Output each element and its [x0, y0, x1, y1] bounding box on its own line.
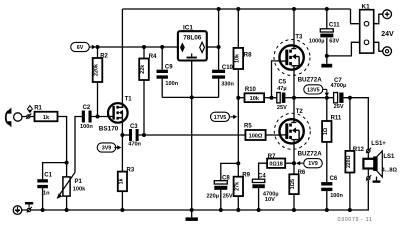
wire C4 bottom stem	[258, 188, 260, 210]
resistor R12	[345, 147, 364, 173]
capacitor C6	[321, 176, 343, 199]
speaker bottom pin	[366, 175, 371, 181]
wire R11 to C6	[326, 142, 328, 182]
svg-text:R12: R12	[353, 147, 365, 153]
svg-text:78L06: 78L06	[183, 35, 202, 42]
svg-text:25V: 25V	[334, 104, 344, 110]
node output/R11	[325, 96, 329, 100]
svg-text:C8: C8	[222, 176, 230, 182]
svg-text:1V9: 1V9	[308, 161, 318, 167]
svg-text:4700µ: 4700µ	[331, 83, 347, 89]
svg-text:220k: 220k	[94, 64, 100, 76]
ground pin	[27, 207, 32, 213]
svg-text:R3: R3	[127, 168, 135, 174]
wire C5 to T3 source	[285, 97, 294, 99]
svg-text:C3: C3	[130, 124, 138, 130]
svg-text:R9: R9	[242, 172, 250, 178]
ground (main)	[186, 210, 198, 221]
svg-text:T2: T2	[296, 109, 304, 115]
wire C1 bottom stem	[42, 188, 44, 210]
wire R6 bottom stem	[293, 194, 295, 210]
svg-text:47µ: 47µ	[277, 86, 286, 92]
wire C11 top stem	[326, 9, 328, 29]
wire K1 pin2 feed	[327, 42, 360, 56]
svg-text:T3: T3	[295, 35, 303, 41]
svg-text:220µ: 220µ	[206, 193, 219, 199]
svg-text:13V5: 13V5	[307, 87, 320, 93]
svg-text:C2: C2	[83, 105, 91, 111]
wire pin to R1	[30, 116, 34, 118]
wire R3 bottom stem	[121, 191, 123, 210]
node 24V/IC1 input	[217, 7, 221, 11]
wire IC1 input column	[218, 9, 220, 47]
node 6V/R2	[96, 45, 100, 49]
svg-text:22k: 22k	[140, 65, 146, 74]
wire R11 top stem	[326, 98, 328, 121]
svg-text:100n: 100n	[80, 124, 93, 130]
wire C9 top stem	[161, 47, 163, 70]
resistor R11	[322, 115, 342, 142]
svg-text:R6: R6	[298, 170, 306, 176]
svg-text:R4: R4	[149, 54, 157, 60]
op-amp U1 / regulator IC1 78L06	[178, 24, 207, 60]
wire decoupling ground link	[162, 96, 218, 98]
wire R7 to C4	[259, 163, 268, 179]
capacitor C4	[252, 174, 278, 203]
input socket circle	[14, 113, 22, 121]
svg-text:0Ω18: 0Ω18	[269, 162, 282, 168]
svg-text:C11: C11	[329, 23, 340, 29]
wire K1 to 0 terminal	[374, 42, 383, 51]
wire C8 bottom stem	[220, 190, 222, 210]
svg-text:25V: 25V	[223, 193, 233, 199]
node T3 gate/C5	[270, 96, 274, 100]
svg-text:030079 - 11: 030079 - 11	[338, 217, 373, 223]
node C7/R12	[348, 96, 352, 100]
svg-text:330n: 330n	[221, 81, 234, 87]
svg-text:4...8Ω: 4...8Ω	[382, 168, 398, 174]
svg-text:1000µ: 1000µ	[309, 39, 325, 45]
wire R4 top stem	[143, 47, 145, 59]
node label 13V5	[304, 85, 329, 97]
svg-text:C4: C4	[258, 174, 266, 180]
wire C8 branch	[221, 163, 239, 180]
svg-text:C1: C1	[44, 172, 52, 178]
wire speaker top stub	[367, 153, 369, 159]
wire R10 to C5	[264, 97, 277, 99]
resistor R8	[234, 48, 253, 69]
wire R12 top stem	[349, 98, 351, 151]
wire speaker bottom stub	[367, 169, 369, 177]
capacitor C3	[128, 124, 141, 147]
svg-text:220Ω: 220Ω	[346, 156, 352, 168]
wire R6 top stem	[293, 163, 295, 174]
resistor R10	[245, 87, 265, 102]
svg-text:100k: 100k	[73, 187, 86, 193]
label 24V	[381, 31, 394, 38]
resistor R1	[34, 106, 57, 122]
wire R8 top stem	[237, 9, 239, 48]
wire K1 pin1 feed	[351, 9, 360, 24]
svg-text:BUZ72A: BUZ72A	[298, 150, 323, 157]
svg-text:R10: R10	[245, 87, 257, 93]
node 6V/C9	[160, 45, 164, 49]
wire R7 right stub	[285, 162, 294, 164]
svg-text:R7: R7	[268, 154, 276, 160]
ground (speaker)	[373, 177, 381, 183]
node T2 source/R6/R7	[292, 161, 296, 165]
node ground/IC1	[190, 208, 194, 212]
wire T2 source stem	[293, 143, 295, 163]
input pin	[26, 113, 31, 119]
node ground link/IC1 gnd	[190, 95, 194, 99]
node label 6V	[71, 42, 96, 51]
svg-text:LS1+: LS1+	[371, 141, 386, 147]
wire R9 bottom stem	[237, 196, 239, 210]
resistor R2	[93, 54, 109, 83]
svg-text:27k: 27k	[235, 182, 241, 191]
node ground/P1	[65, 208, 69, 212]
node R9/ground rail	[236, 208, 240, 212]
wire C1 branch	[43, 163, 67, 180]
wire R5 to T2 gate	[266, 134, 281, 136]
wire C10 top stem	[218, 47, 220, 70]
node divider/R10	[236, 96, 240, 100]
wire C3 to R5 line	[139, 134, 246, 136]
capacitor C10	[212, 65, 234, 88]
node label 3V9	[97, 143, 121, 152]
svg-text:C6: C6	[330, 176, 338, 182]
svg-text:1k: 1k	[43, 115, 50, 121]
node T1 source/C3	[120, 133, 124, 137]
wire IC1 ground pin	[191, 61, 193, 211]
wire C3 left stub	[122, 134, 129, 136]
svg-text:R1: R1	[34, 106, 42, 112]
capacitor C1	[37, 172, 52, 196]
wire R1 to P1 top	[58, 117, 67, 177]
wire 6V line	[96, 46, 178, 48]
svg-text:R2: R2	[100, 54, 108, 60]
potentiometer P1	[57, 172, 87, 199]
transistor T2 (BUZ72A)	[274, 109, 322, 157]
wire C9 bottom stem	[161, 79, 163, 98]
svg-text:C9: C9	[165, 65, 173, 71]
svg-text:K1: K1	[362, 4, 371, 11]
wire R8-R9 column	[237, 69, 239, 177]
wire R10 left stub	[238, 97, 244, 99]
svg-text:LS1: LS1	[383, 154, 395, 160]
wire T3 source stem	[293, 69, 295, 97]
ground socket circle	[13, 206, 22, 215]
svg-text:C5: C5	[278, 80, 286, 86]
wire C6 bottom stem	[326, 191, 328, 210]
svg-text:24V: 24V	[381, 31, 394, 38]
node input/C1 branch	[65, 161, 69, 165]
speaker top pin	[366, 141, 386, 153]
svg-text:10k: 10k	[250, 96, 260, 102]
wire P1 wiper to C2	[75, 117, 82, 173]
wire K1 to + terminal	[374, 14, 383, 24]
input plug symbol	[5, 107, 11, 127]
svg-text:100n: 100n	[330, 193, 343, 199]
svg-text:63V: 63V	[329, 39, 339, 45]
capacitor C11	[309, 23, 340, 45]
capacitor C5	[277, 80, 287, 111]
resistor R9	[234, 172, 251, 196]
svg-text:R11: R11	[331, 115, 342, 121]
svg-text:1Ω5: 1Ω5	[290, 179, 296, 189]
svg-text:470n: 470n	[128, 141, 141, 147]
svg-text:3V9: 3V9	[102, 146, 112, 152]
node C3/R4	[142, 133, 146, 137]
wire T1 drain	[121, 9, 123, 104]
loudspeaker LS1	[363, 151, 397, 177]
node divider/C8	[236, 161, 240, 165]
capacitor C2	[80, 105, 93, 130]
node label 1V9	[296, 159, 322, 168]
svg-text:IC1: IC1	[183, 24, 193, 31]
svg-text:R8: R8	[244, 53, 252, 59]
svg-text:17V5: 17V5	[214, 115, 227, 121]
terminal 0V	[383, 47, 392, 56]
svg-text:25V: 25V	[277, 105, 287, 111]
wire T2 drain stem	[293, 98, 295, 120]
svg-text:100Ω: 100Ω	[249, 133, 263, 139]
capacitor C9	[157, 65, 179, 88]
wire T1 source column	[121, 122, 123, 171]
wire R2 top stem	[97, 47, 99, 58]
node R3/ground rail	[120, 208, 124, 212]
wire output rail	[294, 97, 334, 99]
node 24V/T3 drain	[292, 7, 296, 11]
svg-text:R5: R5	[244, 124, 252, 130]
svg-text:1n: 1n	[43, 191, 50, 197]
node label 17V5	[211, 112, 238, 121]
svg-text:1k: 1k	[119, 178, 125, 184]
ground (C11/K1)	[321, 56, 332, 68]
wire R12 bottom stem	[349, 173, 351, 211]
svg-text:10V: 10V	[265, 197, 275, 203]
ground (input, small)	[25, 202, 33, 208]
connector K1	[360, 4, 374, 53]
node 24V/C11	[325, 7, 329, 11]
svg-text:1Ω: 1Ω	[323, 127, 329, 135]
resistor R7	[267, 154, 285, 168]
wire R4 bottom stem	[143, 80, 145, 135]
wire 24V top rail	[122, 8, 350, 10]
svg-text:C10: C10	[222, 65, 234, 71]
wire P1 bottom stem	[66, 196, 68, 210]
svg-text:6V: 6V	[77, 45, 84, 51]
svg-text:10k: 10k	[235, 54, 241, 63]
transistor T3 (BUZ72A)	[274, 35, 322, 84]
node C11/0V	[325, 54, 329, 58]
node 24V/R8	[236, 7, 240, 11]
node C2/R2	[96, 115, 100, 119]
svg-text:100n: 100n	[165, 81, 178, 87]
svg-text:BS170: BS170	[99, 126, 119, 133]
terminal +24V	[383, 10, 392, 19]
wire ground socket to pin	[22, 209, 27, 211]
svg-text:BUZ72A: BUZ72A	[298, 77, 323, 84]
resistor R3	[118, 168, 135, 192]
node C6/ground rail	[325, 208, 329, 212]
node T3 source/T2 drain	[292, 96, 296, 100]
node R12/ground rail	[348, 208, 352, 212]
wire T3 gate	[272, 61, 281, 98]
wire R2 bottom stem	[97, 82, 99, 117]
wire C2 to T1 gate	[91, 116, 108, 118]
wire ground rail	[31, 180, 369, 210]
node C8/ground rail	[219, 208, 223, 212]
wire C10 bottom stem	[218, 79, 220, 98]
wire socket to pin	[22, 116, 27, 118]
wire IC1 input pin	[207, 46, 219, 48]
input arrow glyph	[27, 106, 32, 113]
transistor T1 (BS170)	[99, 96, 132, 132]
node IC1 input/C10	[217, 45, 221, 49]
wire C7 to speaker	[344, 98, 369, 149]
wire T3 drain	[293, 9, 295, 46]
node R6/ground rail	[292, 208, 296, 212]
resistor R6	[289, 170, 306, 194]
capacitor C7	[331, 78, 347, 110]
resistor R5	[244, 124, 266, 140]
document number	[338, 217, 373, 223]
capacitor C8	[206, 176, 232, 200]
svg-text:T1: T1	[125, 96, 133, 102]
node C4/ground rail	[257, 208, 261, 212]
resistor R4	[139, 54, 157, 80]
wire C11 bottom stem	[326, 38, 328, 56]
node ground/C1	[41, 208, 45, 212]
svg-text:P1: P1	[75, 179, 83, 185]
node 6V/R4	[142, 45, 146, 49]
